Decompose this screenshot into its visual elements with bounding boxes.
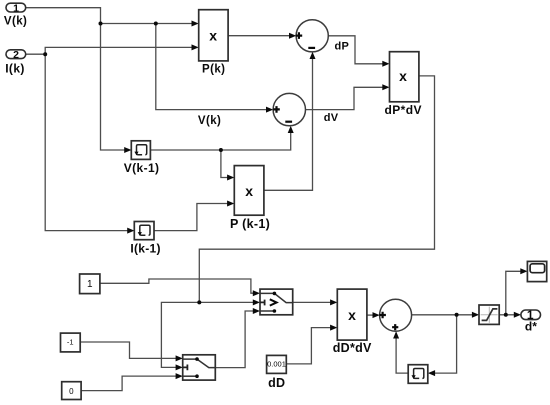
arrow into scope [520,268,527,274]
svg-text:2: 2 [13,49,19,61]
arrow into sum2 plus [373,312,380,318]
wire junction to switch1 control input [199,301,253,303]
wire constant -1 to switch2 in1 [80,342,176,358]
junction node dP*dV signal [197,300,201,304]
wire inport1 to junction and V(k-1) input [26,8,125,150]
arrow into dP*dV in1 [382,61,389,67]
svg-text:x: x [245,183,253,199]
svg-text:V(k-1): V(k-1) [124,161,160,175]
junction node V(k) on port1 line [99,22,103,26]
wire P(k) output to dP plus input [228,35,289,37]
label dV [324,112,339,124]
arrow into P(k-1) in2 [227,201,234,207]
arrow into P(k) in1 [192,21,199,27]
arrow into dP plus [289,33,296,39]
arrow into switch1 in2 [253,299,260,305]
switch block 1 (threshold) [260,289,293,315]
arrow into I(k-1) [127,228,134,234]
arrow into V(k-1) [124,147,131,153]
wire switch2 output to switch1 in3 [215,311,253,368]
constant block 0 [62,382,81,400]
svg-text:1: 1 [87,279,93,290]
sum block dP [296,20,329,52]
svg-text:V(k): V(k) [198,115,221,127]
wire V(k) branch down to dV plus input [156,24,267,110]
arrow into dV plus [266,107,273,113]
wire junction to P(k) in1 [101,23,193,25]
wire I(k-1) output to P(k-1) in2 [154,204,228,231]
svg-text:dP*dV: dP*dV [385,103,422,117]
junction node I(k) [43,52,47,56]
svg-text:dV: dV [324,112,339,124]
arrow into P(k) in2 [192,44,199,50]
junction node duty feedback [455,313,459,317]
svg-text:-1: -1 [67,338,74,347]
wire saturation output to outport [499,314,514,316]
svg-text:dD: dD [268,376,285,390]
svg-text:P (k-1): P (k-1) [230,217,270,231]
unit delay block feedback [408,365,428,384]
constant block 1 [80,274,100,294]
svg-text:0.001: 0.001 [267,360,286,369]
inport 1 [6,2,26,14]
svg-text:V(k): V(k) [4,16,27,28]
wire dD*dV output to sum2 plus input [367,314,373,316]
product block dP*dV [390,52,419,102]
wire junction branch to switch2 control input [161,302,199,367]
label P (k-1) [230,217,270,231]
inport 2 [6,49,26,61]
sum block duty update [379,299,411,331]
arrow into outport [514,312,521,318]
svg-text:I(k): I(k) [5,62,25,76]
product block P(k) [199,10,228,61]
wire V(k-1) output to dV minus input [150,132,290,150]
label dP [335,41,350,53]
wire sum2 output branch down to unit delay input [434,315,456,373]
svg-text:x: x [348,307,356,323]
svg-text:0: 0 [69,387,74,396]
constant block -1 [61,333,81,352]
wire saturation branch up to scope [506,271,521,315]
wire dP*dV output down and across to junction [199,76,434,303]
arrow into P(k-1) in1 [227,175,234,181]
arrow into dV minus (up) [288,126,294,133]
label I(k-1) [130,242,160,256]
product block P(k-1) [234,166,264,216]
svg-text:x: x [209,27,217,43]
saturation block [479,305,499,324]
label P(k) [202,64,225,76]
wire inport2 to junction [26,53,46,55]
label V(k) under inport 1 [4,16,27,28]
arrow into switch1 in3 [253,308,260,314]
svg-text:dP: dP [335,41,350,53]
arrow into sum2 bottom (up) [393,331,399,338]
switch block 2 [183,355,216,380]
arrow into switch2 in1 [176,355,183,361]
product block dD*dV [337,289,367,340]
arrow into switch2 in3 [176,373,183,379]
junction node output to scope [504,313,508,317]
label dD [268,376,285,390]
svg-text:I(k-1): I(k-1) [130,242,160,256]
constant block 0.001 [267,355,287,373]
svg-text:dD*dV: dD*dV [333,341,372,355]
wire I(k) up branch to P(k) in2 [45,47,192,54]
outport 1 [521,308,541,322]
sum block dV [273,93,305,125]
label d* under outport [525,320,537,334]
arrow into switch1 in1 [253,290,260,296]
svg-text:1: 1 [13,2,19,14]
unit delay block I(k-1) [134,222,154,240]
wire constant 1 to switch1 in1 [100,279,254,293]
arrow into dP minus (up) [310,52,316,59]
junction node V(k) branch [154,22,158,26]
arrow into dD*dV in1 [330,299,337,305]
svg-text:P(k): P(k) [202,64,225,76]
arrow into dP*dV in2 [382,84,389,90]
junction node V(k-1) output [219,148,223,152]
unit delay block V(k-1) [131,141,150,160]
arrow into dD*dV in2 [330,325,337,331]
label V(k-1) [124,161,160,175]
wire V(k-1) branch to P(k-1) in1 [221,150,228,178]
wire unit delay output to sum2 bottom input [396,338,408,373]
wire P(k-1) output to dP minus input [264,58,313,190]
arrow into unit delay (left) [428,370,435,376]
label I(k) under inport 2 [5,62,25,76]
wire dV output to dP*dV in2 [306,87,384,109]
wire constant 0.001 to dD*dV in2 [286,328,331,364]
scope block [527,261,546,281]
wire I(k) down branch to I(k-1) input [45,54,128,230]
arrow into saturation [472,312,479,318]
svg-text:d*: d* [525,320,537,334]
wire switch1 output to dD*dV in1 [293,301,331,303]
label V(k) signal [198,115,221,127]
label dP*dV [385,103,422,117]
wire constant 0 to switch2 in3 [81,376,176,391]
svg-text:x: x [399,68,407,84]
wire sum2 output to saturation [412,314,473,316]
wire dP output to dP*dV in1 [328,36,383,64]
label dD*dV [333,341,372,355]
arrow into switch2 in2 [176,364,183,370]
